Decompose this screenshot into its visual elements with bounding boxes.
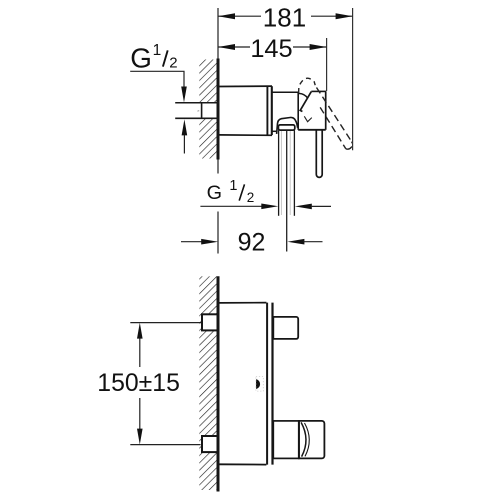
svg-text:181: 181 xyxy=(263,2,306,32)
svg-text:1: 1 xyxy=(153,42,162,59)
svg-text:G: G xyxy=(130,43,152,74)
svg-text:G: G xyxy=(207,182,222,204)
svg-text:92: 92 xyxy=(238,229,266,257)
svg-text:150±15: 150±15 xyxy=(97,370,180,397)
svg-text:2: 2 xyxy=(247,190,255,205)
svg-text:2: 2 xyxy=(169,54,177,71)
svg-text:145: 145 xyxy=(250,35,292,63)
svg-text:1: 1 xyxy=(229,178,237,194)
